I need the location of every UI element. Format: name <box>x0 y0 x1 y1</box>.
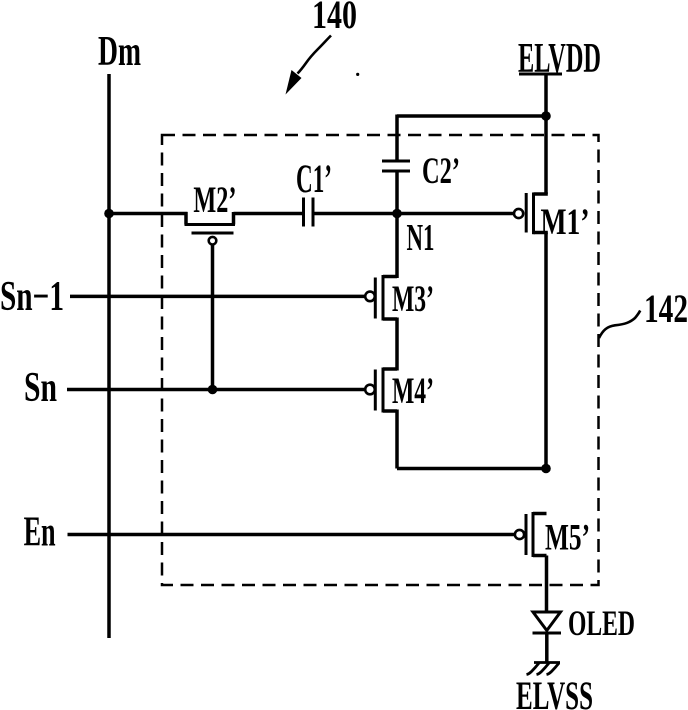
svg-text:M1’: M1’ <box>541 202 590 243</box>
node dot M2' gate on Sn <box>208 385 218 395</box>
node dot ELVDD junction <box>541 111 551 121</box>
svg-text:M2’: M2’ <box>193 180 236 221</box>
svg-text:OLED: OLED <box>568 603 635 643</box>
wire ELVDD stub <box>519 73 562 76</box>
capacitor C2' <box>382 115 410 214</box>
leader squiggle 142 <box>599 311 640 339</box>
svg-text:M5’: M5’ <box>545 518 590 559</box>
transistor M1' <box>514 193 548 235</box>
data line Dm <box>107 74 111 638</box>
scan line Sn-1 <box>70 295 365 299</box>
svg-text:Sn−1: Sn−1 <box>0 274 64 320</box>
wire bottom run to junction <box>397 467 546 471</box>
arrow leader to 140 <box>286 36 332 95</box>
node N1 dot <box>392 209 402 219</box>
capacitor C1' <box>304 198 314 227</box>
svg-text:Sn: Sn <box>24 365 57 411</box>
wire ELVDD vertical <box>544 74 548 194</box>
transistor M5' <box>515 512 547 557</box>
wire N1 to M3' <box>395 214 399 279</box>
svg-text:C2’: C2’ <box>422 151 460 192</box>
transistor M4' <box>365 368 397 413</box>
wire M4' down <box>395 410 399 469</box>
svg-text:M4’: M4’ <box>392 371 434 412</box>
svg-text:ELVSS: ELVSS <box>516 673 593 710</box>
ground ELVSS symbol <box>527 663 561 675</box>
wire M3' to M4' <box>395 318 399 371</box>
wire top rail <box>397 114 546 118</box>
svg-text:140: 140 <box>312 0 357 37</box>
node dot M1'/M5' junction <box>541 464 551 474</box>
svg-text:N1: N1 <box>407 217 435 259</box>
wire row1 M2' to C1' <box>234 212 303 216</box>
svg-text:Dm: Dm <box>98 29 141 75</box>
wire row1 C1' to M1' gate <box>315 212 515 216</box>
wire row1 Dm to M2' <box>109 212 188 216</box>
svg-text:M3’: M3’ <box>392 279 434 320</box>
transistor M3' <box>365 275 397 321</box>
transistor M2' <box>185 212 236 245</box>
node dot at Dm row1 <box>104 209 114 219</box>
wire M1' drain down <box>544 233 548 471</box>
stray dot artifact <box>356 73 359 76</box>
wire M5' drain down <box>545 556 549 613</box>
emission line En <box>68 533 516 537</box>
OLED diode <box>533 612 562 663</box>
wire M2' gate vertical <box>211 245 215 390</box>
svg-text:C1’: C1’ <box>296 156 332 201</box>
dashed box 142 boundary <box>162 135 599 585</box>
scan line Sn <box>67 388 365 392</box>
svg-text:En: En <box>24 510 56 556</box>
svg-text:142: 142 <box>644 286 688 331</box>
